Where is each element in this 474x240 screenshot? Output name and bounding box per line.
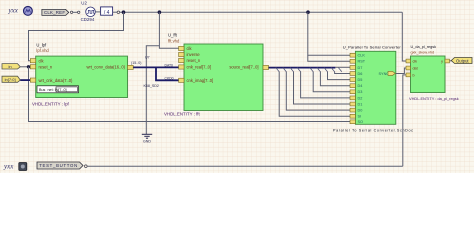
svg-text:reset_n: reset_n bbox=[39, 65, 53, 70]
wire bbox=[73, 11, 78, 13]
svg-text:in: in bbox=[8, 64, 11, 69]
wire in down bbox=[29, 67, 351, 122]
svg-text:D5: D5 bbox=[358, 78, 363, 82]
svg-text:wrt_conv_data(16..0): wrt_conv_data(16..0) bbox=[87, 65, 126, 70]
svg-text:clk: clk bbox=[413, 60, 418, 64]
svg-text:Parallel To Serial Converter.S: Parallel To Serial Converter.SchDoc bbox=[333, 129, 413, 133]
svg-text:RST: RST bbox=[358, 60, 366, 64]
svg-text:SYNC: SYNC bbox=[379, 72, 390, 76]
bus branch down to fft pin5 bbox=[156, 67, 180, 80]
svg-text:CLK_REF: CLK_REF bbox=[44, 10, 65, 15]
bus fft to serial converter bbox=[269, 67, 336, 69]
ground bbox=[142, 134, 152, 143]
wire TEST_BUTTON up to da block bbox=[403, 75, 407, 166]
block U_da_pl_regsk bbox=[406, 45, 450, 92]
svg-text:net: IN[7..0]: net: IN[7..0] bbox=[48, 88, 67, 92]
pin circle bbox=[70, 11, 72, 13]
svg-text:cnk_real[7..0]: cnk_real[7..0] bbox=[187, 65, 212, 70]
junction bbox=[306, 10, 310, 14]
svg-text:yxx: yxx bbox=[3, 163, 14, 171]
svg-text:dat: dat bbox=[413, 66, 418, 70]
wire bus to D7 bbox=[335, 66, 350, 68]
svg-text:fft.vhd: fft.vhd bbox=[168, 38, 180, 43]
svg-text:U_da_pl_regsk: U_da_pl_regsk bbox=[411, 45, 437, 49]
port In[7:0] bbox=[2, 76, 20, 82]
svg-text:/ 4: / 4 bbox=[104, 10, 110, 16]
wire clk main horizontal bbox=[120, 11, 403, 13]
pins left column bbox=[350, 53, 355, 123]
bus lpf to fft bbox=[133, 66, 156, 68]
port CLK_REF bbox=[42, 9, 69, 15]
wire bbox=[95, 11, 100, 13]
pin circle bbox=[117, 11, 120, 14]
port Output bbox=[451, 58, 472, 64]
svg-text:D7: D7 bbox=[358, 66, 363, 70]
svg-text:SO: SO bbox=[358, 120, 364, 124]
wire bbox=[113, 11, 117, 13]
wire clk to serial converter bbox=[308, 12, 351, 55]
svg-text:yxx: yxx bbox=[8, 7, 19, 15]
svg-text:cnk_imag[7..0]: cnk_imag[7..0] bbox=[187, 78, 214, 83]
block U_Parallel To Serial Converter bbox=[343, 45, 402, 125]
svg-text:wrt_cnk_data(7..0): wrt_cnk_data(7..0) bbox=[39, 78, 74, 83]
svg-text:y: y bbox=[441, 60, 443, 64]
pin reset_n bbox=[30, 65, 35, 69]
svg-text:U_fft: U_fft bbox=[168, 33, 178, 38]
svg-text:D6: D6 bbox=[358, 72, 363, 76]
svg-text:SI: SI bbox=[358, 115, 362, 119]
svg-text:VHDL.ENTITY : fft: VHDL.ENTITY : fft bbox=[164, 112, 200, 117]
logo icon top-left bbox=[24, 6, 33, 15]
wire TEST_BUTTON bbox=[87, 165, 403, 167]
svg-text:U7: U7 bbox=[145, 56, 150, 60]
svg-text:inverse: inverse bbox=[187, 52, 201, 57]
junction bbox=[158, 10, 162, 14]
pin inverse bbox=[179, 52, 184, 56]
pin circle bbox=[85, 165, 88, 168]
pin dat bbox=[406, 66, 411, 70]
port in bbox=[2, 64, 20, 69]
svg-text:Output: Output bbox=[456, 58, 469, 63]
wire to output port bbox=[450, 60, 452, 62]
pin wrt_conv_data out bbox=[128, 65, 134, 69]
wire rst feed bbox=[308, 55, 351, 61]
svg-text:souce_real[7..0]: souce_real[7..0] bbox=[229, 65, 258, 70]
junction node in bbox=[27, 65, 30, 68]
wire clk feedback to lpf bbox=[29, 12, 124, 61]
block U_lpf bbox=[30, 43, 133, 98]
pin b bbox=[406, 73, 411, 77]
svg-text:TEST_BUTTON: TEST_BUTTON bbox=[39, 163, 77, 168]
bus label box bbox=[37, 86, 79, 93]
svg-text:CKD0: CKD0 bbox=[165, 76, 174, 80]
svg-text:D2: D2 bbox=[358, 96, 363, 100]
pin circle bbox=[78, 11, 80, 13]
svg-text:D1: D1 bbox=[358, 102, 363, 106]
svg-text:gxk_skew.vhd: gxk_skew.vhd bbox=[411, 50, 435, 54]
svg-text:reset_n: reset_n bbox=[187, 58, 201, 63]
bus In[7:0] to lpf bbox=[20, 79, 30, 81]
port TEST_BUTTON bbox=[37, 162, 83, 169]
wire in to lpf bbox=[20, 66, 30, 68]
pin wrt_cnk_data bbox=[30, 78, 35, 82]
pin clk bbox=[406, 59, 411, 63]
svg-text:D0: D0 bbox=[358, 109, 363, 113]
pin y out bbox=[445, 59, 450, 63]
svg-text:CD294: CD294 bbox=[81, 17, 95, 22]
pin cnk_real bbox=[179, 65, 184, 69]
svg-text:CLK: CLK bbox=[358, 54, 366, 58]
pin reset_n bbox=[179, 58, 184, 62]
junction bbox=[122, 10, 126, 14]
svg-text:DAT0: DAT0 bbox=[165, 63, 174, 67]
svg-text:Bus: Bus bbox=[39, 88, 46, 92]
block U_fft bbox=[168, 33, 269, 111]
svg-text:D4: D4 bbox=[358, 84, 363, 88]
svg-text:VHDL.ENTITY : da_pl_regsk: VHDL.ENTITY : da_pl_regsk bbox=[409, 96, 459, 101]
svg-text:(15..0): (15..0) bbox=[131, 61, 141, 65]
svg-text:b: b bbox=[413, 73, 415, 77]
svg-text:VHDL.ENTITY : lpf: VHDL.ENTITY : lpf bbox=[32, 102, 70, 107]
svg-text:lpf.vhd: lpf.vhd bbox=[36, 48, 49, 53]
bus branch to fft pin4 bbox=[156, 66, 180, 68]
svg-text:GND: GND bbox=[143, 140, 151, 144]
wire clk to da block bbox=[402, 12, 406, 61]
svg-text:In[7:0]: In[7:0] bbox=[4, 77, 15, 82]
bus tap slashes bbox=[276, 68, 342, 72]
pin clk bbox=[179, 46, 184, 50]
svg-text:K68_SD2: K68_SD2 bbox=[144, 84, 159, 88]
ground wire bbox=[146, 46, 159, 134]
pin cnk_imag bbox=[179, 78, 184, 82]
wire SYNC to da block bbox=[396, 68, 407, 74]
wire clk to fft bbox=[159, 12, 179, 48]
pin clk bbox=[30, 59, 35, 63]
divider /4 box bbox=[101, 7, 113, 16]
svg-text:U_Parallel To Serial Converter: U_Parallel To Serial Converter bbox=[343, 45, 402, 50]
bus taps to D pins bbox=[279, 72, 350, 117]
pin souce_real out bbox=[263, 65, 269, 69]
button icon bbox=[19, 163, 27, 171]
svg-text:D3: D3 bbox=[358, 90, 363, 94]
clock source U2 bbox=[81, 1, 96, 23]
svg-text:U2: U2 bbox=[81, 1, 87, 6]
